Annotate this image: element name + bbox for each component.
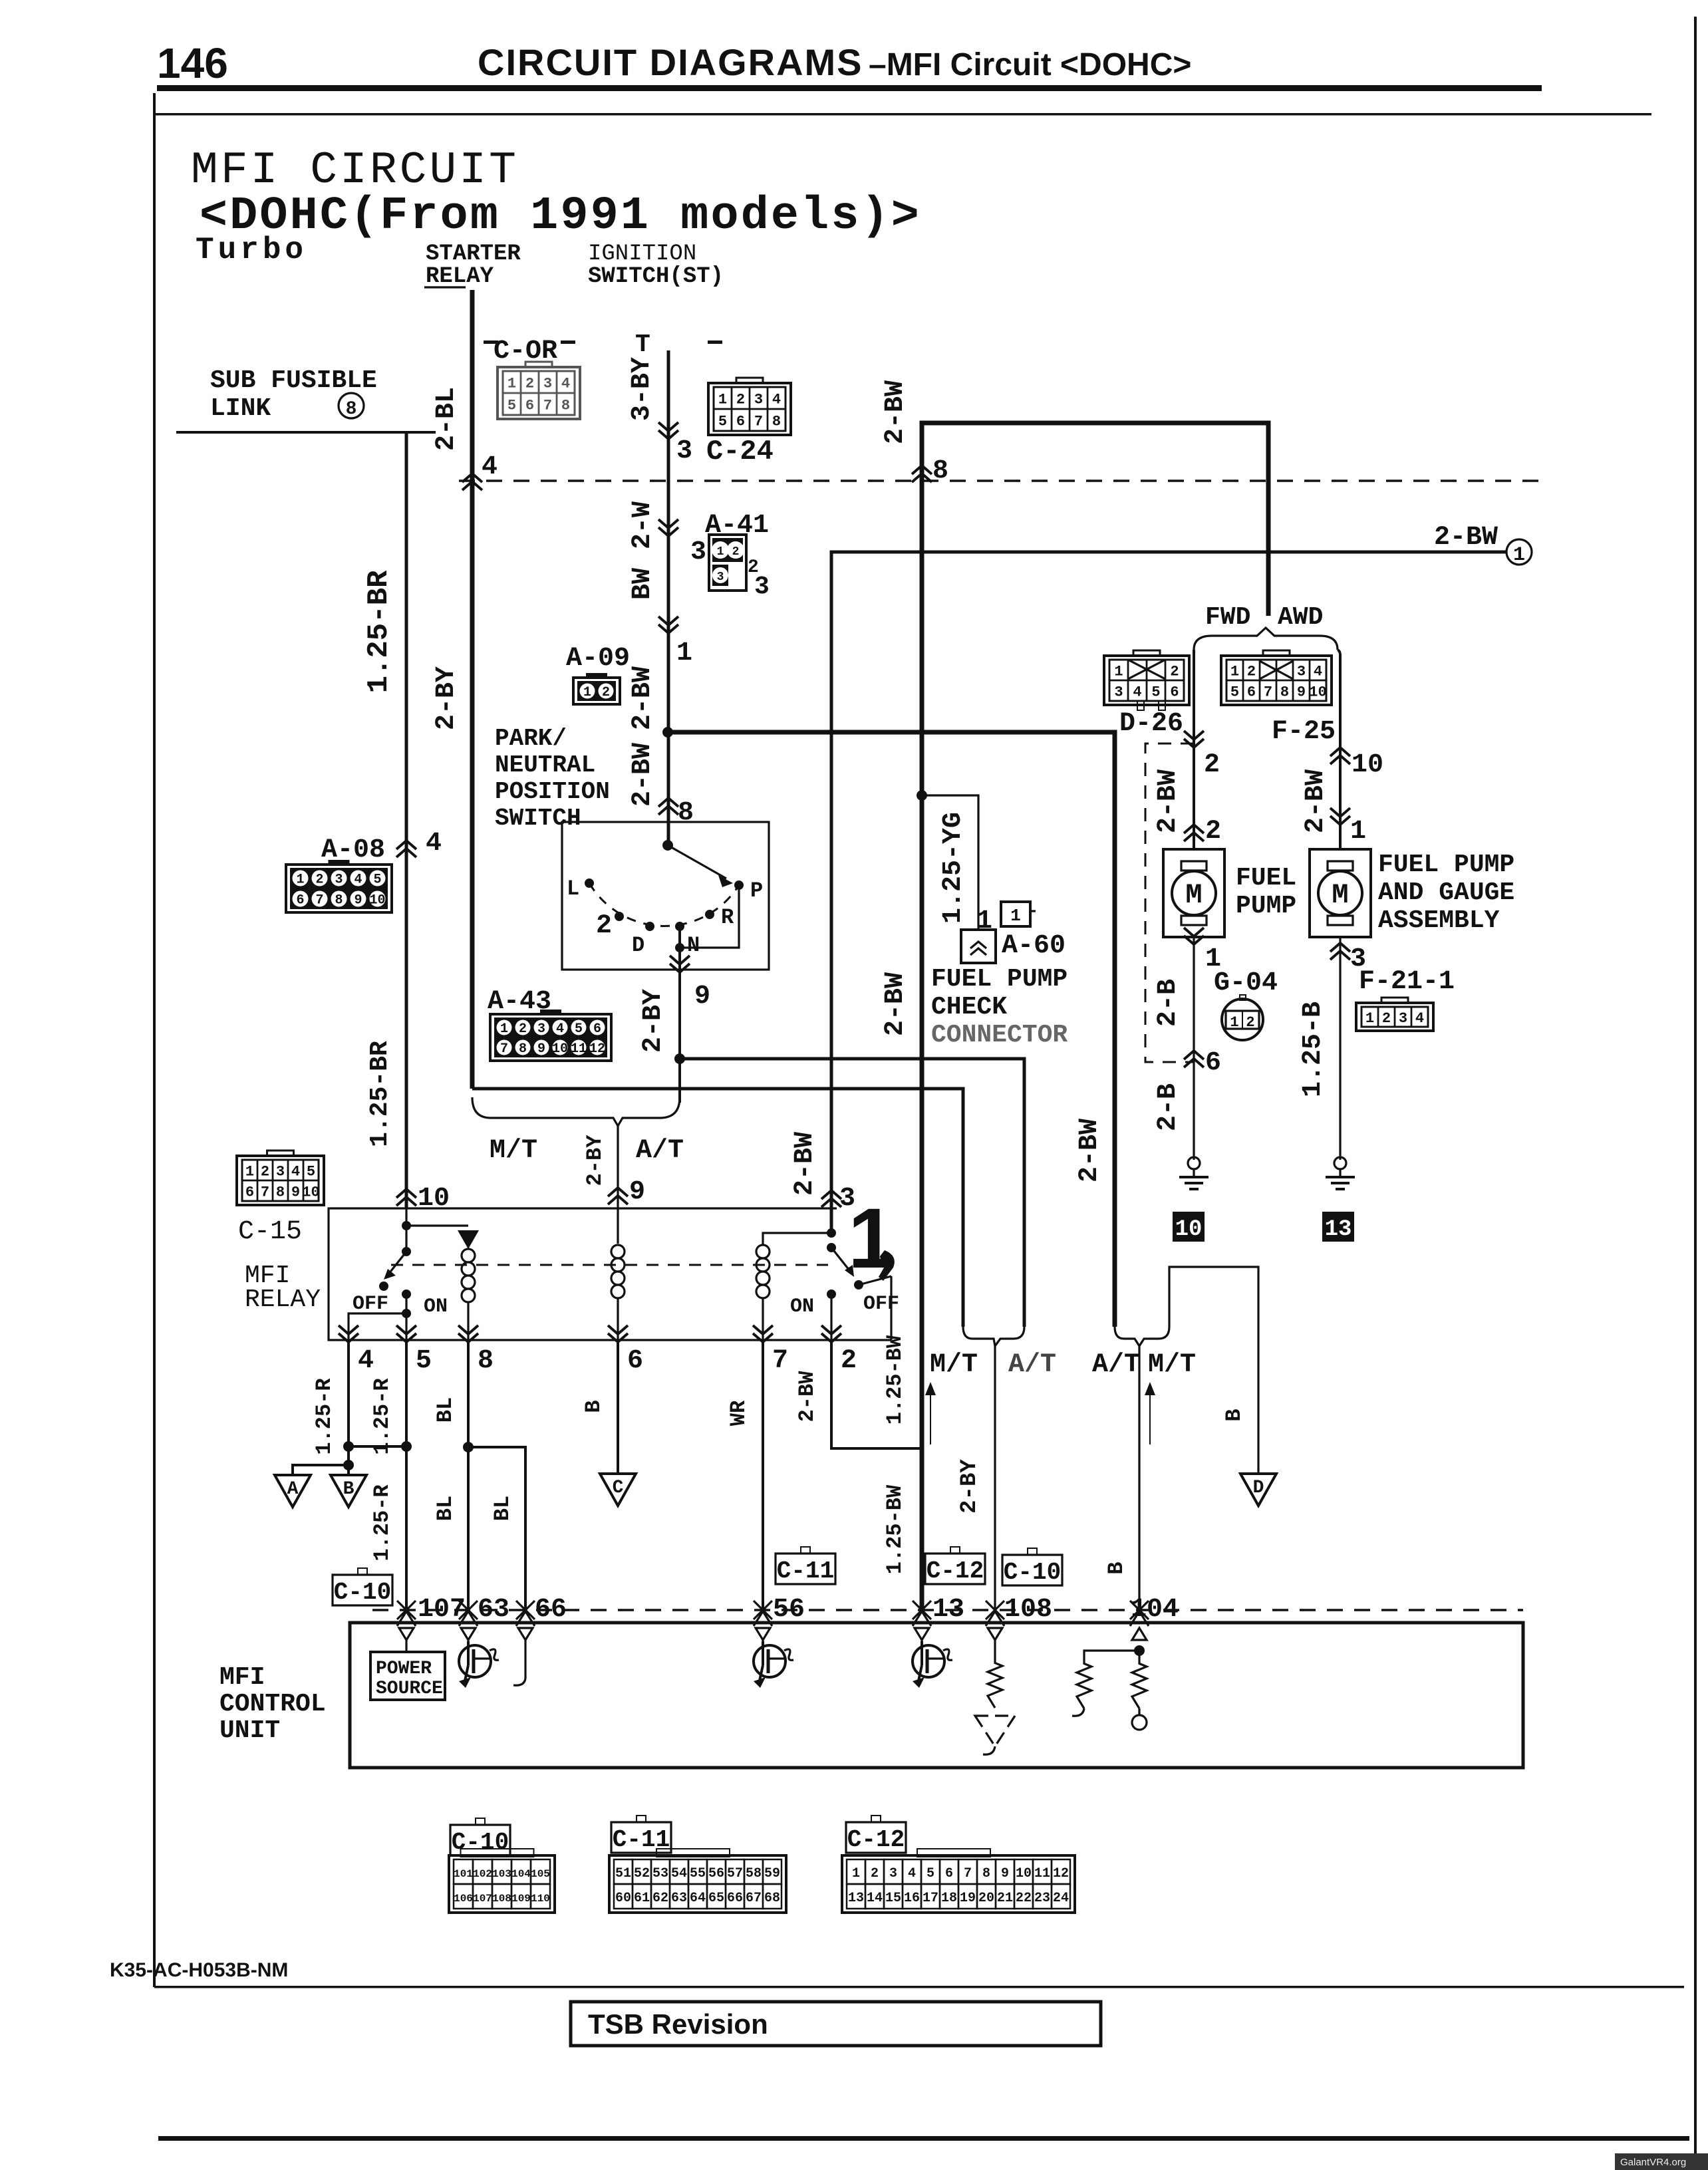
- svg-text:BW: BW: [628, 568, 658, 600]
- svg-text:4: 4: [426, 829, 442, 859]
- svg-text:6: 6: [736, 413, 745, 430]
- M/T direction arrow 2: [1149, 1390, 1151, 1444]
- svg-text:2: 2: [1246, 1014, 1254, 1031]
- svg-text:8: 8: [561, 397, 570, 414]
- triangle A: [275, 1475, 311, 1507]
- svg-text:8: 8: [276, 1184, 285, 1200]
- svg-text:3: 3: [1297, 663, 1306, 680]
- svg-text:1: 1: [507, 375, 516, 392]
- transistor (pin 63): [467, 1640, 469, 1645]
- pin 8 arrow into switch: [658, 798, 678, 815]
- svg-text:15: 15: [885, 1891, 901, 1906]
- svg-text:5: 5: [507, 397, 516, 414]
- svg-text:11: 11: [1034, 1866, 1050, 1881]
- svg-text:FUEL PUMP: FUEL PUMP: [1378, 851, 1514, 879]
- svg-text:5: 5: [373, 873, 381, 888]
- svg-text:53: 53: [652, 1866, 668, 1881]
- pin 9 arrow: [670, 956, 690, 972]
- svg-text:T: T: [635, 331, 650, 359]
- svg-text:6: 6: [245, 1184, 254, 1200]
- svg-text:1: 1: [1350, 817, 1366, 847]
- relay pin 6: [617, 1298, 619, 1340]
- pin 10 arrow into relay: [396, 1189, 416, 1206]
- svg-text:MFI CIRCUIT: MFI CIRCUIT: [191, 145, 519, 196]
- svg-text:13: 13: [848, 1891, 864, 1906]
- relay right switch: [827, 1228, 836, 1238]
- svg-text:2: 2: [519, 1021, 527, 1037]
- transistor (pin 56): [762, 1640, 764, 1645]
- svg-text:ASSEMBLY: ASSEMBLY: [1378, 906, 1500, 935]
- power source box: [370, 1652, 445, 1700]
- svg-text:4: 4: [561, 375, 570, 392]
- svg-text:2: 2: [736, 391, 745, 408]
- svg-text:5: 5: [1151, 684, 1160, 700]
- relay pin 5: [396, 1325, 416, 1342]
- svg-text:9: 9: [694, 982, 710, 1012]
- svg-text:CHECK: CHECK: [931, 993, 1007, 1021]
- wire AWD side down to F-25/pump assembly: [1338, 650, 1340, 849]
- svg-text:2-BY: 2-BY: [432, 666, 462, 730]
- svg-text:66: 66: [535, 1595, 567, 1625]
- svg-text:12: 12: [589, 1041, 605, 1057]
- junction pin8 branch: [463, 1442, 474, 1452]
- svg-text:5: 5: [416, 1346, 432, 1376]
- svg-text:8: 8: [478, 1346, 494, 1376]
- svg-text:1.25-BW: 1.25-BW: [883, 1484, 907, 1574]
- svg-text:2-BW: 2-BW: [795, 1371, 819, 1423]
- svg-text:SOURCE: SOURCE: [376, 1679, 443, 1699]
- svg-text:4: 4: [772, 391, 781, 408]
- svg-text:A/T: A/T: [636, 1136, 684, 1166]
- svg-text:2: 2: [602, 685, 610, 700]
- svg-text:2: 2: [871, 1866, 879, 1881]
- svg-text:59: 59: [764, 1866, 780, 1881]
- svg-text:–MFI Circuit <DOHC>: –MFI Circuit <DOHC>: [869, 47, 1191, 82]
- svg-text:2: 2: [1204, 750, 1220, 780]
- svg-text:C-24: C-24: [706, 436, 774, 468]
- ground fuel pump: [1188, 1157, 1200, 1169]
- connector tag C-11: [801, 1547, 810, 1554]
- junction node W2/W3: [662, 727, 673, 738]
- dashed separator line: [459, 479, 1542, 481]
- svg-text:9: 9: [1297, 684, 1306, 700]
- dashed option box: [1145, 744, 1194, 1062]
- svg-text:L: L: [567, 877, 579, 901]
- wire N to MT/AT brace: [678, 1059, 681, 1103]
- control unit pin 107 crossing: [397, 1601, 416, 1626]
- svg-text:6: 6: [945, 1866, 953, 1881]
- svg-text:13: 13: [1325, 1217, 1352, 1242]
- svg-text:A-41: A-41: [705, 511, 769, 541]
- svg-text:1: 1: [1513, 544, 1525, 567]
- svg-text:1.25-BR: 1.25-BR: [362, 570, 396, 693]
- svg-text:2-BW: 2-BW: [881, 972, 911, 1036]
- C-24 pin 3 arrow: [658, 422, 678, 439]
- svg-text:56: 56: [773, 1595, 805, 1625]
- svg-text:C-10: C-10: [1004, 1559, 1061, 1586]
- svg-text:60: 60: [615, 1891, 631, 1906]
- svg-text:<DOHC(From 1991 models)>: <DOHC(From 1991 models)>: [200, 190, 921, 243]
- pin 3 arrow into relay: [821, 1190, 841, 1207]
- triangle D: [1240, 1474, 1276, 1506]
- svg-text:20: 20: [978, 1891, 994, 1906]
- svg-text:C-12: C-12: [847, 1826, 905, 1853]
- svg-text:104: 104: [1131, 1595, 1179, 1625]
- svg-text:1: 1: [718, 391, 727, 408]
- brace A/T-M/T (fuel pump): [1115, 1327, 1169, 1346]
- svg-text:1.25-B: 1.25-B: [1298, 1002, 1328, 1097]
- svg-text:1: 1: [1010, 906, 1021, 926]
- svg-text:109: 109: [511, 1893, 531, 1905]
- wire ON contact to pin 2: [830, 1294, 832, 1340]
- svg-text:2: 2: [525, 375, 534, 392]
- svg-text:10: 10: [552, 1041, 568, 1057]
- wire 1.25-YG branch to A-60: [922, 795, 978, 930]
- resistor pair: [1084, 1651, 1139, 1661]
- svg-text:4: 4: [556, 1021, 564, 1037]
- connector A-60: [961, 930, 996, 963]
- svg-text:B: B: [343, 1479, 355, 1500]
- svg-text:7: 7: [261, 1184, 269, 1200]
- svg-text:1.25-BR: 1.25-BR: [366, 1041, 394, 1147]
- svg-text:F-21-1: F-21-1: [1359, 967, 1455, 997]
- svg-text:6: 6: [593, 1021, 601, 1037]
- black box 10: [1173, 1212, 1205, 1242]
- svg-text:ON: ON: [790, 1295, 814, 1318]
- header thin rule: [154, 113, 1651, 116]
- A-41 pin 3 arrow: [658, 519, 678, 536]
- relay pin 7: [762, 1298, 764, 1340]
- svg-text:8: 8: [519, 1041, 527, 1057]
- svg-text:4: 4: [908, 1866, 916, 1881]
- park/neutral switch box: [562, 822, 769, 970]
- svg-text:108: 108: [1004, 1595, 1052, 1625]
- triangle B: [331, 1475, 366, 1507]
- pin triangles inside box: [399, 1628, 414, 1640]
- svg-text:FUEL PUMP: FUEL PUMP: [931, 965, 1067, 994]
- wire N contact down: [678, 926, 681, 1059]
- connector tag C-10 (108): [1028, 1548, 1037, 1555]
- connector C-10 (bottom): [476, 1818, 485, 1825]
- switch contact dots: [585, 879, 594, 888]
- svg-text:104: 104: [511, 1868, 531, 1880]
- svg-text:3: 3: [1399, 1010, 1407, 1027]
- connector A-09: [586, 673, 607, 681]
- wire pin8 down: [467, 1340, 470, 1610]
- connector A-41: [709, 535, 746, 591]
- wire W6 horizontal A/T branch: [680, 1059, 1024, 1327]
- svg-text:1: 1: [583, 685, 591, 700]
- switch pivot node: [662, 840, 673, 851]
- svg-text:SUB FUSIBLE: SUB FUSIBLE: [210, 366, 377, 395]
- inverter triangle below resistor: [975, 1716, 1015, 1746]
- relay pin 8: [467, 1302, 469, 1340]
- svg-text:62: 62: [652, 1891, 668, 1906]
- svg-text:5: 5: [575, 1021, 583, 1037]
- wire OFF contact to pin 4: [349, 1313, 406, 1340]
- svg-text:A-60: A-60: [1002, 931, 1066, 961]
- svg-text:6: 6: [525, 397, 534, 414]
- svg-text:5: 5: [718, 413, 727, 430]
- pin 10 arrow (F-25): [1330, 747, 1350, 764]
- wire 1.25-BR vertical: [405, 432, 408, 1208]
- header thick rule: [157, 85, 1542, 91]
- svg-text:5: 5: [307, 1163, 315, 1180]
- svg-text:1: 1: [1230, 1014, 1238, 1031]
- svg-text:8: 8: [678, 798, 694, 828]
- svg-text:9: 9: [629, 1177, 645, 1207]
- svg-text:8: 8: [982, 1866, 990, 1881]
- wire 2-BY to relay pin 9: [617, 1126, 619, 1208]
- relay coil 3: [756, 1245, 770, 1258]
- svg-text:3: 3: [676, 436, 692, 466]
- svg-text:IGNITION: IGNITION: [588, 241, 696, 267]
- svg-text:2-BW: 2-BW: [628, 666, 658, 730]
- wire ON contact to pin 5: [405, 1294, 407, 1340]
- control unit pin 56 crossing: [754, 1601, 772, 1626]
- relay left switch arm: [388, 1252, 406, 1274]
- wire starter relay 2-BL vertical: [470, 290, 475, 1089]
- svg-text:3: 3: [754, 391, 763, 408]
- svg-text:5: 5: [1230, 684, 1239, 700]
- svg-text:M/T: M/T: [930, 1350, 978, 1380]
- svg-text:9: 9: [291, 1184, 300, 1200]
- truncation dashes above wires: [484, 340, 498, 344]
- svg-text:R: R: [721, 905, 734, 930]
- svg-text:A-09: A-09: [566, 644, 630, 674]
- svg-text:4: 4: [482, 452, 498, 482]
- svg-text:C-10: C-10: [334, 1579, 391, 1606]
- svg-text:2-BW: 2-BW: [1434, 523, 1498, 553]
- svg-text:10: 10: [1175, 1217, 1203, 1242]
- svg-text:110: 110: [531, 1893, 550, 1905]
- svg-text:146: 146: [157, 39, 228, 87]
- svg-text:CIRCUIT DIAGRAMS: CIRCUIT DIAGRAMS: [478, 41, 863, 83]
- watermark badge: [1615, 2153, 1708, 2170]
- svg-text:M/T: M/T: [490, 1136, 537, 1166]
- svg-text:OFF: OFF: [863, 1293, 899, 1315]
- svg-text:65: 65: [708, 1891, 724, 1906]
- brace M/T-A/T (2-BY pair): [963, 1327, 1024, 1346]
- pin 2 arrow (pump): [1184, 825, 1204, 841]
- svg-text:10: 10: [369, 893, 385, 908]
- svg-text:FWD: FWD: [1205, 603, 1250, 632]
- svg-text:M/T: M/T: [1148, 1350, 1196, 1380]
- wire pin4 down: [347, 1340, 350, 1475]
- svg-text:63: 63: [478, 1595, 509, 1625]
- svg-text:FUEL: FUEL: [1236, 864, 1296, 892]
- svg-text:11: 11: [571, 1041, 587, 1057]
- svg-text:7: 7: [772, 1346, 788, 1376]
- svg-text:P: P: [750, 879, 763, 903]
- svg-text:103: 103: [492, 1868, 511, 1880]
- svg-text:4: 4: [1314, 663, 1322, 680]
- svg-text:14: 14: [867, 1891, 883, 1906]
- junction pin4/pin5: [343, 1441, 354, 1452]
- svg-text:1: 1: [852, 1866, 860, 1881]
- svg-text:2: 2: [1247, 663, 1256, 680]
- relay internal: left switch node: [402, 1221, 411, 1230]
- svg-text:2-BY: 2-BY: [639, 989, 668, 1053]
- svg-text:7: 7: [754, 413, 763, 430]
- svg-text:1: 1: [1114, 663, 1123, 680]
- svg-text:WR: WR: [726, 1400, 751, 1426]
- svg-text:4: 4: [354, 873, 362, 888]
- svg-text:1.25-YG: 1.25-YG: [938, 812, 968, 924]
- svg-text:1: 1: [1230, 663, 1239, 680]
- svg-text:1: 1: [500, 1021, 508, 1037]
- svg-text:2-W: 2-W: [628, 501, 658, 549]
- relay coil 2: [617, 1208, 619, 1244]
- svg-text:3: 3: [276, 1163, 285, 1180]
- svg-text:105: 105: [531, 1868, 550, 1880]
- relay linkage dashed: [391, 1264, 828, 1266]
- sub fusible link bus bar: [176, 431, 436, 434]
- ground pump assy: [1334, 1157, 1346, 1169]
- connector tag C-10: [358, 1568, 367, 1575]
- svg-text:1: 1: [676, 638, 692, 668]
- connector C-OR: [525, 362, 552, 371]
- svg-text:Turbo: Turbo: [196, 233, 307, 267]
- svg-text:B: B: [1104, 1561, 1129, 1574]
- wire pin6 down to triangle C: [617, 1340, 619, 1472]
- svg-text:2: 2: [1382, 1010, 1391, 1027]
- junction node A/T branch: [674, 1053, 685, 1064]
- svg-text:D: D: [1253, 1478, 1264, 1498]
- relay pin 4: [339, 1325, 358, 1342]
- svg-text:3-BY: 3-BY: [627, 357, 657, 421]
- wire 2-BW to connector page link: [831, 552, 1507, 1236]
- svg-text:52: 52: [634, 1866, 650, 1881]
- svg-text:24: 24: [1053, 1891, 1069, 1906]
- wire below pump: [1193, 937, 1195, 1160]
- connector F-25: [1263, 650, 1290, 660]
- svg-text:3: 3: [537, 1021, 545, 1037]
- svg-text:2-BW: 2-BW: [628, 743, 658, 807]
- box numeral 1: [1001, 902, 1030, 926]
- footer thin rule: [154, 1986, 1684, 1988]
- svg-text:10: 10: [1016, 1866, 1032, 1881]
- svg-text:UNIT: UNIT: [219, 1716, 280, 1745]
- svg-text:3: 3: [1114, 684, 1123, 700]
- svg-text:GalantVR4.org: GalantVR4.org: [1620, 2157, 1686, 2168]
- svg-text:7: 7: [964, 1866, 972, 1881]
- TSB revision box: [571, 2002, 1101, 2046]
- svg-text:68: 68: [764, 1891, 780, 1906]
- control unit pin 13 crossing: [913, 1601, 931, 1626]
- svg-text:66: 66: [727, 1891, 743, 1906]
- svg-text:1.25-BW: 1.25-BW: [883, 1335, 907, 1424]
- bottom thick rule: [158, 2136, 1689, 2141]
- connector G-04: [1222, 999, 1263, 1040]
- svg-text:OFF: OFF: [353, 1293, 388, 1315]
- svg-text:B: B: [1222, 1409, 1246, 1421]
- svg-text:54: 54: [671, 1866, 687, 1881]
- pin 8 arrow on dashed line: [912, 466, 932, 482]
- wire below pump assy: [1339, 937, 1341, 1160]
- connector F-21-1: [1381, 998, 1408, 1007]
- svg-text:B: B: [581, 1400, 606, 1413]
- svg-text:C-12: C-12: [926, 1558, 984, 1585]
- svg-text:D-26: D-26: [1119, 709, 1183, 739]
- svg-text:STARTER: STARTER: [426, 241, 521, 267]
- black box 13: [1322, 1212, 1354, 1242]
- svg-text:3: 3: [335, 873, 343, 888]
- svg-text:PUMP: PUMP: [1236, 892, 1296, 920]
- pin 2 arrow (D-26): [1184, 731, 1204, 747]
- svg-text:F-25: F-25: [1272, 717, 1336, 747]
- svg-text:M: M: [1185, 879, 1202, 911]
- svg-text:2: 2: [1170, 663, 1179, 680]
- wire M/T side to ground D: [1169, 1267, 1258, 1472]
- svg-text:NEUTRAL: NEUTRAL: [495, 751, 595, 779]
- svg-text:2-B: 2-B: [1153, 979, 1183, 1027]
- wire 2-BW top loop to FWD/AWD: [922, 423, 1268, 1609]
- connector C-11 (bottom): [637, 1816, 646, 1822]
- svg-text:N: N: [687, 933, 700, 958]
- svg-text:106: 106: [454, 1893, 473, 1905]
- svg-text:2-BW: 2-BW: [790, 1132, 820, 1196]
- relay coil 1: [462, 1249, 475, 1262]
- svg-text:G-04: G-04: [1214, 968, 1278, 998]
- svg-text:1: 1: [245, 1163, 254, 1180]
- junction node to fuel pump check branch: [917, 790, 927, 801]
- svg-text:2: 2: [732, 545, 740, 559]
- svg-text:3: 3: [889, 1866, 897, 1881]
- fuel pump and gauge motor: [1310, 849, 1371, 937]
- MFI relay box: [329, 1208, 891, 1340]
- svg-text:107: 107: [418, 1595, 466, 1625]
- svg-text:CONTROL: CONTROL: [219, 1690, 326, 1718]
- svg-text:9: 9: [537, 1041, 545, 1057]
- svg-text:17: 17: [923, 1891, 938, 1906]
- svg-text:2-B: 2-B: [1153, 1083, 1183, 1131]
- svg-text:107: 107: [473, 1893, 492, 1905]
- svg-text:C-15: C-15: [238, 1217, 302, 1247]
- connector D-26: [1133, 650, 1160, 660]
- connector A-08: [329, 860, 350, 868]
- svg-text:16: 16: [904, 1891, 920, 1906]
- svg-text:8: 8: [1280, 684, 1289, 700]
- pin 4 arrow: [396, 841, 416, 857]
- svg-text:2: 2: [596, 911, 612, 941]
- svg-text:7: 7: [1264, 684, 1272, 700]
- svg-text:1.25-R: 1.25-R: [370, 1378, 394, 1455]
- svg-text:2-BW: 2-BW: [881, 380, 911, 444]
- svg-text:BL: BL: [433, 1496, 458, 1521]
- svg-text:51: 51: [615, 1866, 631, 1881]
- branch to triangle B: [343, 1460, 354, 1470]
- svg-text:5: 5: [926, 1866, 934, 1881]
- svg-text:8: 8: [335, 893, 343, 908]
- svg-text:7: 7: [315, 893, 323, 908]
- MFI control unit box: [350, 1623, 1523, 1768]
- svg-text:9: 9: [354, 893, 362, 908]
- svg-text:1: 1: [296, 873, 304, 888]
- svg-text:64: 64: [690, 1891, 706, 1906]
- connector C-12 (bottom): [871, 1816, 881, 1822]
- svg-text:6: 6: [296, 893, 304, 908]
- svg-text:102: 102: [473, 1868, 492, 1880]
- svg-text:POSITION: POSITION: [495, 778, 610, 805]
- connector C-24: [736, 378, 763, 387]
- svg-text:8: 8: [932, 456, 948, 486]
- svg-text:1: 1: [976, 906, 992, 936]
- svg-text:56: 56: [708, 1866, 724, 1881]
- svg-text:AND GAUGE: AND GAUGE: [1378, 879, 1514, 907]
- svg-text:SWITCH: SWITCH: [495, 805, 581, 832]
- control unit pin 63 crossing: [459, 1601, 478, 1626]
